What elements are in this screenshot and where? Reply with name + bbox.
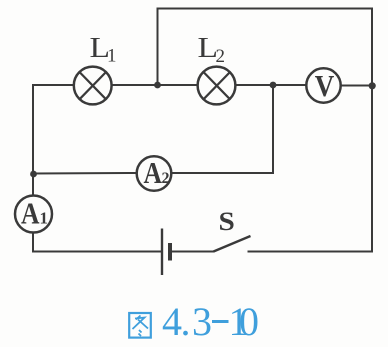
svg-text:1: 1 [107, 46, 117, 67]
svg-text:4: 4 [162, 299, 182, 344]
wire top loop: junction between L1,L2 up, across top, down right side [158, 9, 373, 252]
svg-text:0: 0 [239, 299, 259, 344]
battery long plate (positive) [161, 229, 163, 276]
node junction dot on right wire at V [369, 82, 376, 89]
ammeter A1 [15, 196, 52, 233]
caption text 4.3-10 [162, 299, 259, 344]
lamp L2 [198, 67, 236, 105]
svg-text:2: 2 [162, 170, 170, 187]
svg-text:3: 3 [192, 299, 212, 344]
svg-text:V: V [315, 68, 335, 103]
node junction dot between L2 and V [270, 82, 277, 89]
svg-text:2: 2 [216, 46, 226, 67]
wire left vertical upper (corner down to A1) [32, 85, 34, 196]
voltmeter V [306, 68, 340, 102]
svg-text:A: A [144, 155, 163, 190]
battery short plate (negative) [168, 243, 172, 261]
wire left main: left corner to L1 [33, 84, 74, 86]
svg-text:S: S [219, 207, 235, 236]
wire L1 to L2 [112, 84, 198, 86]
wire bottom left: corner to battery [33, 251, 161, 253]
switch S lever [214, 236, 251, 252]
lamp L1 [74, 67, 112, 105]
svg-text:A: A [21, 196, 40, 231]
wire A2 to left vertical [33, 172, 136, 175]
wire battery to switch pivot [172, 251, 214, 253]
caption character 图 (drawn) [129, 313, 151, 338]
wire A2 branch: down from junction, left to A2 [173, 85, 274, 173]
node junction dot between L1 and L2 [154, 82, 161, 89]
ammeter A2 [137, 156, 172, 191]
wire left vertical lower (A1 down to bottom corner) [32, 233, 34, 252]
wire L2 to V [236, 84, 306, 86]
svg-text:.: . [181, 299, 191, 344]
wire switch right contact to bottom right corner [249, 251, 373, 253]
node junction dot on left wire at A2 branch [30, 171, 37, 178]
wire V to right side [342, 85, 373, 87]
svg-text:1: 1 [40, 209, 49, 228]
